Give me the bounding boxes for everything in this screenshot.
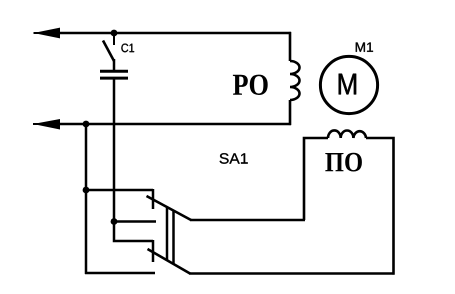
wire: capacitor down through crossings to SA1 (line B) (113, 78, 116, 222)
SA1 gang bar left (166, 207, 169, 262)
wire: contact 1b open contact (114, 220, 156, 223)
label M inside motor (339, 74, 356, 95)
wire: blade 1 output to PO left lead (190, 219, 305, 222)
node: junction line A to contact 1a feed (83, 187, 90, 194)
inductor PO coil (3 bumps) (328, 130, 366, 138)
wire: RO bottom lead (to supply line 2 corner) (289, 100, 292, 125)
node: junction on line 1 at C1 branch (111, 30, 118, 37)
node: junction on line 2 (line A tap) (83, 121, 90, 128)
switch SA1 blade 1 (147, 196, 192, 220)
wire: blade 2 output to PO right lead (189, 272, 395, 275)
motor M1 circle (320, 56, 377, 113)
label M1 (356, 43, 373, 52)
wire: line B lower elbow (114, 222, 153, 242)
wire: RO top lead (from supply line 1 corner) (289, 32, 292, 61)
wire: contact 1a feed (86, 189, 153, 192)
label RO (working winding) (233, 75, 268, 95)
contact 2a stub (152, 240, 155, 262)
contact 1a stub (152, 189, 155, 209)
wire: supply line 2 horizontal (58, 123, 291, 126)
label C1 (121, 44, 134, 53)
terminal arrow (supply line 2) (33, 119, 60, 130)
switch SA1 blade 2 (148, 249, 191, 274)
wire: contact 2b open contact (from line A) (85, 272, 155, 275)
capacitor C1 bottom plate (100, 77, 128, 80)
wire: PO left lead (304, 138, 328, 220)
switch contact stub above C1 (113, 34, 115, 45)
wire: blade to capacitor (113, 59, 116, 71)
wire: supply line 1 horizontal (58, 32, 291, 35)
terminal arrow (supply line 1) (34, 28, 61, 39)
inductor RO coil (3 bumps) (290, 61, 300, 100)
wire: PO right lead (366, 138, 394, 275)
capacitor C1 top plate (100, 70, 128, 73)
switch blade above C1 (103, 41, 114, 62)
node: junction line B to contact 1b (111, 218, 118, 225)
label SA1 (220, 153, 248, 164)
label PO (starting winding) (325, 153, 362, 172)
SA1 gang bar right (172, 210, 175, 265)
wire: line A vertical (85, 124, 88, 274)
